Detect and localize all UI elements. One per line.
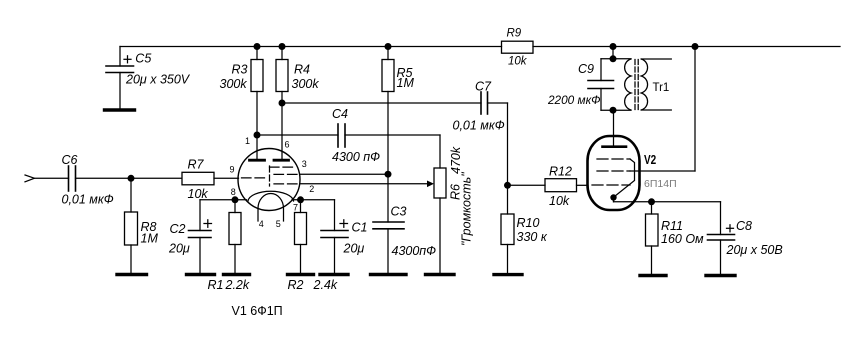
svg-text:7: 7 bbox=[293, 203, 298, 213]
resistor R7 bbox=[182, 172, 239, 185]
svg-text:2200 мкФ: 2200 мкФ bbox=[547, 93, 601, 107]
tube V1 triode grid bbox=[242, 177, 265, 179]
svg-text:C2: C2 bbox=[170, 222, 186, 236]
svg-text:2.4k: 2.4k bbox=[313, 278, 338, 292]
node rail R3 bbox=[254, 43, 261, 50]
ground bbox=[288, 273, 314, 276]
resistor R1 bbox=[229, 200, 241, 275]
svg-text:1M: 1M bbox=[397, 76, 415, 90]
svg-text:9: 9 bbox=[230, 165, 235, 175]
svg-text:160 Ом: 160 Ом bbox=[661, 232, 704, 246]
svg-text:R3: R3 bbox=[232, 62, 248, 76]
tube V1 pentode grid g3 bbox=[270, 166, 297, 186]
svg-text:470k: 470k bbox=[449, 146, 463, 174]
tube V2 cathode bbox=[610, 194, 720, 234]
svg-text:C1: C1 bbox=[352, 221, 368, 235]
svg-text:R9: R9 bbox=[507, 28, 522, 40]
resistor R3 bbox=[251, 47, 263, 136]
svg-text:4300 пФ: 4300 пФ bbox=[332, 150, 380, 164]
ground bbox=[320, 273, 348, 276]
wire pentode anode node to C7 bbox=[282, 102, 481, 104]
resistor R8 bbox=[125, 178, 138, 274]
node V1 pin6 bbox=[279, 100, 286, 107]
input terminal bbox=[25, 175, 69, 182]
ground bbox=[426, 273, 455, 276]
potentiometer R6 bbox=[427, 168, 446, 275]
node V1 pin1 bbox=[254, 132, 261, 139]
node input R8 bbox=[128, 175, 135, 182]
node rail g2 bbox=[692, 43, 699, 50]
svg-text:5: 5 bbox=[276, 219, 281, 229]
wire B+ rail left segment bbox=[120, 46, 502, 48]
svg-text:Tr1: Tr1 bbox=[653, 82, 670, 94]
resistor R12 bbox=[508, 179, 589, 192]
tube V1 cathode bbox=[248, 191, 294, 201]
svg-text:330 к: 330 к bbox=[517, 230, 548, 244]
tube V1 heater bbox=[258, 194, 284, 221]
svg-text:2.2k: 2.2k bbox=[225, 278, 250, 292]
svg-text:10k: 10k bbox=[188, 187, 209, 201]
capacitor C1 bbox=[321, 200, 348, 275]
node pin3 C3 bbox=[385, 171, 392, 178]
tube V2 anode bbox=[603, 110, 627, 147]
svg-text:C3: C3 bbox=[391, 205, 407, 219]
ground bbox=[371, 273, 407, 276]
capacitor C3 bbox=[373, 222, 404, 275]
capacitor C7 bbox=[481, 92, 508, 185]
svg-text:1M: 1M bbox=[141, 232, 159, 246]
capacitor C4 bbox=[338, 124, 440, 168]
node primary top bbox=[610, 55, 617, 62]
svg-text:6: 6 bbox=[285, 140, 290, 150]
svg-text:4300пФ: 4300пФ bbox=[392, 244, 437, 258]
svg-text:300k: 300k bbox=[292, 77, 320, 91]
svg-text:R4: R4 bbox=[294, 62, 310, 76]
resistor R2 bbox=[295, 200, 307, 275]
resistor R11 bbox=[646, 202, 659, 276]
svg-text:10k: 10k bbox=[549, 194, 570, 208]
tube V1 envelope bbox=[238, 149, 300, 211]
node rail R4 bbox=[279, 43, 286, 50]
wire V1 pin3 to C3 node bbox=[300, 173, 388, 175]
ground bbox=[706, 274, 735, 277]
tube V2 envelope bbox=[588, 136, 640, 210]
svg-text:6П14П: 6П14П bbox=[644, 178, 677, 190]
svg-text:2: 2 bbox=[309, 184, 314, 194]
svg-text:"Громкость": "Громкость" bbox=[460, 172, 474, 246]
svg-text:R7: R7 bbox=[188, 158, 205, 172]
svg-text:C6: C6 bbox=[62, 153, 78, 167]
ground bbox=[224, 273, 250, 276]
node rail transformer bbox=[610, 43, 617, 50]
node R10 R12 bbox=[504, 182, 511, 189]
capacitor C5 bbox=[106, 47, 134, 111]
ground bbox=[117, 273, 147, 276]
resistor R10 bbox=[501, 185, 514, 274]
svg-text:C9: C9 bbox=[578, 62, 594, 76]
svg-text:R1: R1 bbox=[208, 278, 224, 292]
tube V2 grid g1 bbox=[592, 184, 630, 186]
svg-text:4: 4 bbox=[259, 219, 264, 229]
node rail R5 bbox=[385, 43, 392, 50]
capacitor C2 bbox=[189, 200, 212, 275]
tube V1 pentode grid g2 bbox=[274, 173, 299, 175]
svg-text:20μ x 50В: 20μ x 50В bbox=[726, 243, 783, 257]
svg-text:C4: C4 bbox=[332, 107, 348, 121]
svg-text:20μ: 20μ bbox=[343, 241, 365, 255]
svg-text:8: 8 bbox=[231, 187, 236, 197]
ground bbox=[187, 273, 215, 276]
svg-text:3: 3 bbox=[302, 159, 307, 169]
ground bbox=[105, 108, 135, 111]
resistor R9 bbox=[502, 41, 534, 53]
transformer Tr1 bbox=[625, 59, 672, 110]
svg-text:C7: C7 bbox=[475, 80, 492, 94]
wire transformer primary bottom bbox=[601, 109, 631, 111]
tube V2 grid g2 bbox=[597, 47, 695, 172]
capacitor C8 bbox=[708, 225, 735, 276]
wire transformer primary top bbox=[601, 58, 631, 60]
wire B+ rail right segment bbox=[533, 46, 840, 48]
resistor R4 bbox=[276, 47, 288, 104]
svg-text:V1 6Ф1П: V1 6Ф1П bbox=[232, 304, 283, 318]
node pin8 R1 bbox=[232, 196, 239, 203]
node pin7 R2 bbox=[297, 196, 304, 203]
tube V1 pentode anode bbox=[274, 103, 289, 160]
wire triode anode node to C4 bbox=[257, 134, 338, 136]
resistor R5 bbox=[382, 47, 394, 223]
wire V1 pin2 to R6 wiper bbox=[300, 183, 428, 185]
svg-text:300k: 300k bbox=[220, 77, 248, 91]
svg-text:R2: R2 bbox=[288, 278, 304, 292]
svg-text:C8: C8 bbox=[736, 219, 752, 233]
svg-text:R12: R12 bbox=[549, 165, 572, 179]
svg-text:20μ x 350V: 20μ x 350V bbox=[125, 73, 191, 87]
svg-text:0,01 мкФ: 0,01 мкФ bbox=[453, 118, 505, 132]
wire V1 pin7 node bbox=[292, 199, 335, 201]
svg-text:V2: V2 bbox=[644, 154, 656, 167]
svg-text:R10: R10 bbox=[517, 216, 540, 230]
tube V1 pentode grid g1 bbox=[274, 183, 299, 185]
node V2 cathode R11 bbox=[648, 198, 655, 205]
svg-text:20μ: 20μ bbox=[168, 241, 190, 255]
wire V1 pin8 node bbox=[200, 199, 247, 201]
ground bbox=[640, 274, 666, 277]
ground bbox=[494, 273, 522, 276]
svg-text:C5: C5 bbox=[135, 52, 151, 66]
wire rail to transformer bbox=[612, 47, 614, 59]
svg-text:1: 1 bbox=[245, 136, 250, 146]
capacitor C9 bbox=[588, 59, 614, 110]
svg-text:10k: 10k bbox=[508, 56, 528, 68]
tube V1 triode anode bbox=[250, 135, 265, 160]
svg-text:0,01 мкФ: 0,01 мкФ bbox=[62, 192, 114, 206]
tube V2 grid g3 bbox=[597, 159, 635, 197]
capacitor C6 bbox=[69, 166, 182, 191]
node primary bottom bbox=[610, 107, 617, 114]
